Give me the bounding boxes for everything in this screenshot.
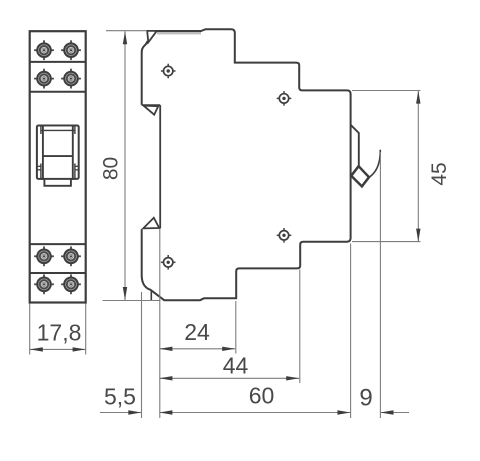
- side screw top-right: [277, 91, 292, 106]
- side view clip lower notch: [150, 291, 152, 300]
- screw terminal row3 right: [61, 246, 81, 266]
- extension line front view bottom right: [85, 304, 87, 355]
- dimension 5,5 tail line: [100, 412, 141, 414]
- screw terminal row2 left: [34, 69, 54, 89]
- side view latch spring curl: [369, 150, 380, 178]
- switch frame inner left vertical: [40, 126, 42, 135]
- screw terminal row1 left: [34, 40, 54, 60]
- front view terminal divider top 2: [30, 91, 86, 93]
- screw terminal row4 right: [61, 274, 81, 294]
- front view terminal divider bottom 2: [30, 272, 86, 274]
- extension line latch tip for 9: [379, 152, 381, 418]
- dimension 60 left arrow: [159, 410, 172, 414]
- dimension 45 top arrow: [416, 91, 420, 104]
- switch frame right tab lines: [75, 165, 79, 167]
- side view clip upper triangle: [144, 106, 159, 115]
- screw terminal row2 right: [61, 69, 81, 89]
- side view left clip lower edge: [142, 229, 165, 300]
- extension line 44 step: [299, 270, 301, 384]
- svg-text:24: 24: [184, 319, 210, 345]
- switch frame inner right vertical: [74, 126, 76, 135]
- svg-text:9: 9: [359, 385, 372, 412]
- svg-text:80: 80: [100, 157, 123, 180]
- side view latch arm: [351, 125, 359, 167]
- dimension 5,5 arrow: [128, 410, 141, 414]
- dimension 44 left arrow: [159, 376, 172, 380]
- extension line 80 top: [106, 30, 146, 32]
- side view clip lower triangle: [143, 218, 159, 229]
- side screw bottom-right: [277, 228, 292, 243]
- dimension 9 arrow: [381, 410, 394, 414]
- extension line 80 bottom: [103, 300, 161, 302]
- dimension 45 line: [417, 91, 419, 242]
- switch frame inner top bar: [41, 129, 75, 131]
- extension line front view bottom left: [29, 304, 31, 355]
- svg-text:17,8: 17,8: [37, 320, 82, 346]
- extension line 45 bottom: [352, 241, 421, 243]
- dimension 17,8 left arrow: [30, 347, 43, 351]
- dimension 24 right arrow: [222, 347, 235, 351]
- screw terminal row4 left: [34, 274, 54, 294]
- switch frame outer: [37, 126, 79, 179]
- switch frame left tab lines: [37, 165, 41, 167]
- switch rocker mid line: [43, 155, 73, 157]
- svg-text:45: 45: [428, 162, 451, 185]
- screw terminal row3 left: [34, 246, 54, 266]
- dimension 17,8 right arrow: [73, 347, 86, 351]
- extension line 45 top: [352, 90, 421, 92]
- extension line 24 step: [235, 301, 237, 354]
- side view latch tooth: [351, 166, 369, 186]
- dimension 24 line: [159, 348, 235, 350]
- side view main outline: [147, 29, 350, 300]
- svg-text:44: 44: [223, 353, 249, 379]
- front view terminal divider top 1: [30, 61, 86, 63]
- side screw bottom-left: [161, 255, 176, 270]
- side view recessed face vertical: [159, 105, 161, 228]
- svg-text:60: 60: [249, 383, 275, 409]
- extension line front face for 5,5 60: [159, 229, 161, 418]
- switch rocker: [43, 126, 73, 179]
- dimension 17,8 line: [30, 348, 86, 350]
- dimension 24 left arrow: [159, 347, 172, 351]
- dimension 45 bottom arrow: [416, 229, 420, 242]
- extension line clip outer for 5,5: [141, 292, 143, 418]
- front view terminal divider bottom 1: [30, 243, 86, 245]
- dimension 44 right arrow: [286, 376, 299, 380]
- dimension 60 right arrow: [337, 410, 350, 414]
- screw terminal row1 right: [61, 40, 81, 60]
- dimension 80 line: [124, 31, 126, 300]
- dimension 9 tail line: [381, 412, 410, 414]
- dimension 80 top arrow: [123, 31, 127, 44]
- dimension 80 bottom arrow: [123, 287, 127, 300]
- svg-text:5,5: 5,5: [104, 384, 136, 410]
- switch bottom tab: [44, 179, 71, 186]
- side screw top-left: [161, 64, 176, 79]
- dimension 60 line: [159, 412, 350, 414]
- extension line right face for 60: [350, 244, 352, 419]
- side view top shaded strip: [157, 32, 201, 35]
- dimension 44 line: [159, 377, 299, 379]
- side view left clip upper edge: [142, 41, 148, 105]
- side view clip step upper horizontal: [142, 104, 161, 106]
- side view top-left corner triangle: [147, 31, 157, 42]
- front view body outline: [30, 31, 86, 302]
